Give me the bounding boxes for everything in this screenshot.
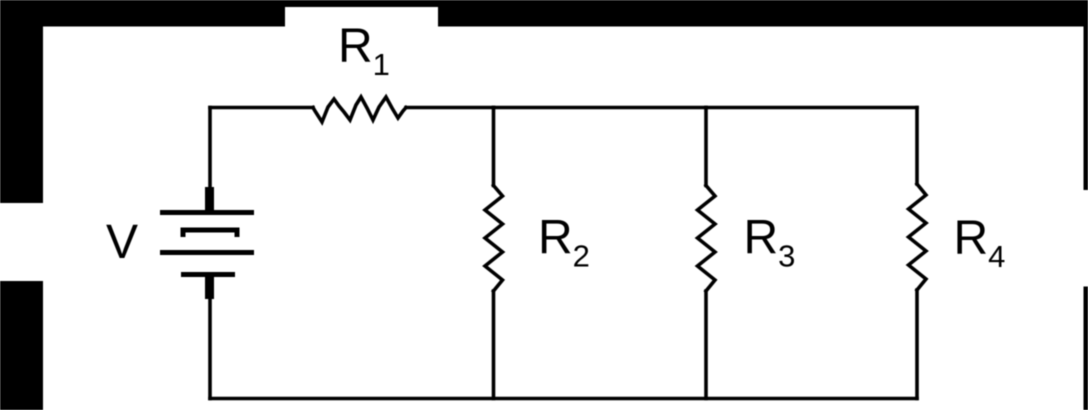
black left border bar lower [0, 281, 43, 410]
battery plate short lower [181, 272, 235, 277]
svg-text:V: V [106, 216, 138, 269]
wire: R2 branch upper [492, 108, 496, 186]
resistor R3 [698, 186, 716, 292]
wire: R4 branch lower [915, 290, 919, 399]
wire: top left segment (node A to R1) [210, 106, 313, 110]
wire: R4 branch upper [915, 108, 919, 185]
battery bottom stub [205, 274, 214, 299]
resistor R4 [909, 184, 927, 290]
resistor R1 [313, 97, 406, 122]
battery top stub [205, 187, 214, 211]
wire: left vertical from battery to bottom wire [208, 277, 212, 399]
battery plate long bottom [160, 250, 254, 255]
black right border strip lower [1084, 287, 1088, 410]
black top border bar [0, 0, 1088, 27]
battery V (multi-cell) [160, 187, 254, 299]
wire: top segment node C to top-right corner [706, 106, 917, 110]
resistor R2 [485, 186, 503, 292]
black right border strip upper [1084, 0, 1088, 190]
white notch in top bar [285, 7, 438, 27]
wire: R2 branch lower [492, 291, 496, 399]
wire: left vertical from top wire to battery [208, 108, 212, 211]
black left border bar upper [0, 0, 43, 203]
wire: R3 branch upper [704, 108, 708, 186]
wire: top segment R1 to node B [406, 106, 494, 110]
wire: top segment node B to node C [494, 106, 707, 110]
wire: R3 branch lower [704, 291, 708, 399]
wire: bottom horizontal [210, 397, 917, 401]
battery plate short upper [183, 230, 237, 237]
battery plate long top [160, 210, 254, 215]
